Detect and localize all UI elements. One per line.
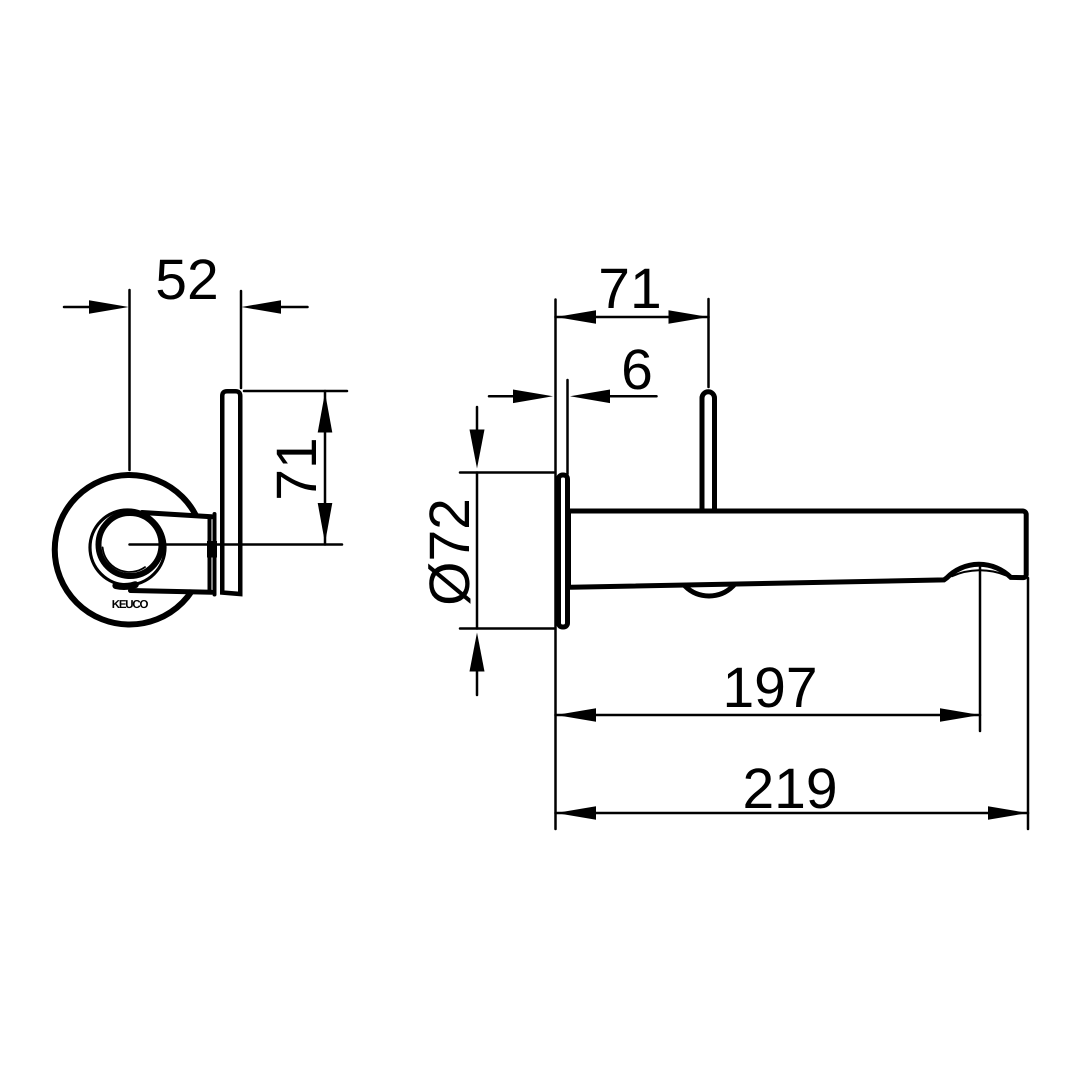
handle arm top edge [142, 513, 212, 517]
dimension 71 side arrow right [669, 310, 709, 324]
svg-text:197: 197 [722, 656, 817, 720]
dimension 52 line right [281, 306, 308, 309]
collar line 1 [208, 517, 212, 593]
svg-text:Ø72: Ø72 [418, 498, 482, 606]
handle arm fill [136, 515, 211, 591]
svg-text:6: 6 [621, 338, 653, 402]
wall extension line [554, 300, 557, 830]
extension line circle center (52) [128, 290, 131, 470]
svg-text:71: 71 [265, 437, 329, 500]
svg-text:71: 71 [598, 257, 661, 321]
knob face inner arc [103, 547, 145, 572]
knob face circle [99, 513, 162, 576]
extension line blade right (52) [240, 291, 243, 388]
lever blade [222, 391, 240, 594]
dimension 52 arrow left [89, 300, 129, 314]
extension line flange bottom (d72) [460, 627, 554, 630]
svg-text:52: 52 [155, 248, 218, 312]
dimension d72 arrow bottom [470, 633, 485, 672]
escutcheon circle [55, 475, 205, 625]
pin extension line (71 side) [707, 299, 710, 387]
dimension 71 front arrow top [318, 393, 333, 433]
lever pin [702, 392, 715, 513]
collar center blob [207, 541, 217, 558]
center line [130, 543, 343, 546]
aerator inner arc [952, 570, 1006, 576]
flange right extension line (6) [566, 380, 569, 474]
dimension d72 arrow top [470, 430, 485, 469]
wall flange [559, 475, 568, 627]
collar line 2 [213, 514, 217, 595]
extension line spout tip (219) [1027, 578, 1030, 829]
svg-text:KEUCO: KEUCO [112, 599, 149, 611]
dimension 52 line left [64, 306, 90, 309]
knob silhouette circle [90, 510, 165, 585]
extension line flange top (d72) [460, 471, 554, 474]
dimension 71 front arrow bottom [318, 503, 333, 543]
dimension 6 line left [489, 395, 514, 398]
dimension 219 arrow right [988, 806, 1028, 820]
dimension 219 arrow left [556, 806, 596, 820]
dimension 71 side arrow left [556, 310, 596, 324]
dimension d72 line top [476, 407, 479, 431]
dimension 197 line [556, 714, 981, 717]
dimension 52 arrow right [242, 300, 282, 314]
spout body [569, 511, 1027, 587]
dimension d72 mid line [476, 473, 479, 629]
dimension 197 arrow left [556, 708, 596, 722]
dimension 219 line [556, 812, 1029, 815]
dimension 6 arrow right [570, 390, 610, 404]
extension line blade top (71 front) [244, 390, 347, 393]
cartridge circle [675, 528, 743, 596]
knob silhouette thick arc [116, 585, 135, 587]
extension line aerator (197) [979, 567, 982, 731]
dimension 6 arrow left [513, 390, 553, 404]
dimension 6 line right [610, 395, 657, 398]
dimension 197 arrow right [940, 708, 980, 722]
svg-text:219: 219 [742, 757, 837, 821]
dimension 71 front line [324, 391, 327, 545]
dimension d72 line bottom [476, 671, 479, 695]
dimension 71 side line [556, 316, 709, 319]
handle arm bottom edge [131, 591, 212, 593]
